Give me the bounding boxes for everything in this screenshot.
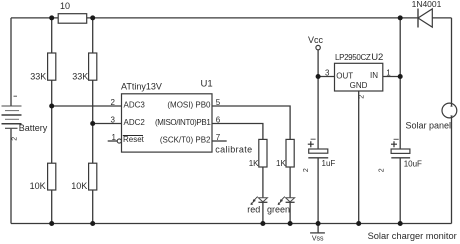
svg-text:LP2950CZ: LP2950CZ [335,53,371,62]
svg-text:(MOSI) PB0: (MOSI) PB0 [167,101,211,110]
svg-text:3: 3 [325,69,330,78]
svg-text:6: 6 [216,116,221,125]
svg-text:(MISO/INT0)PB1: (MISO/INT0)PB1 [155,118,211,127]
svg-text:U1: U1 [201,79,213,90]
svg-text:33K: 33K [30,72,46,82]
svg-text:GND: GND [350,81,368,90]
svg-text:(SCK/T0) PB2: (SCK/T0) PB2 [160,136,211,145]
svg-text:1K: 1K [276,159,286,168]
svg-text:calibrate: calibrate [215,145,252,155]
svg-text:U2: U2 [371,52,383,63]
svg-text:1N4001: 1N4001 [412,0,442,9]
svg-text:10uF: 10uF [404,159,422,168]
svg-text:2: 2 [379,168,386,172]
svg-text:ADC2: ADC2 [124,118,146,127]
svg-text:ATtiny13V: ATtiny13V [121,82,162,92]
svg-text:2: 2 [12,137,19,141]
svg-text:1: 1 [386,69,391,78]
svg-text:Vss: Vss [312,236,324,243]
svg-text:10K: 10K [30,181,46,191]
svg-text:2: 2 [359,95,366,99]
svg-text:33K: 33K [72,72,88,82]
svg-text:Vcc: Vcc [308,35,324,45]
svg-text:3: 3 [111,116,116,125]
svg-text:Reset: Reset [123,135,145,144]
svg-text:2: 2 [111,98,116,107]
svg-text:2: 2 [303,168,310,172]
svg-text:1K: 1K [249,159,259,168]
svg-text:7: 7 [216,133,221,142]
svg-text:10K: 10K [71,181,87,191]
svg-text:ADC3: ADC3 [124,101,146,110]
svg-text:1uF: 1uF [322,159,336,168]
svg-text:5: 5 [216,98,221,107]
svg-text:Solar charger monitor: Solar charger monitor [368,231,457,241]
svg-text:10: 10 [60,1,70,11]
svg-text:Solar panel: Solar panel [406,121,452,131]
svg-text:red: red [247,204,260,214]
svg-text:IN: IN [370,71,378,80]
svg-text:Battery: Battery [19,123,48,133]
svg-text:green: green [267,204,290,214]
svg-text:1: 1 [112,133,117,142]
svg-text:OUT: OUT [336,72,353,81]
